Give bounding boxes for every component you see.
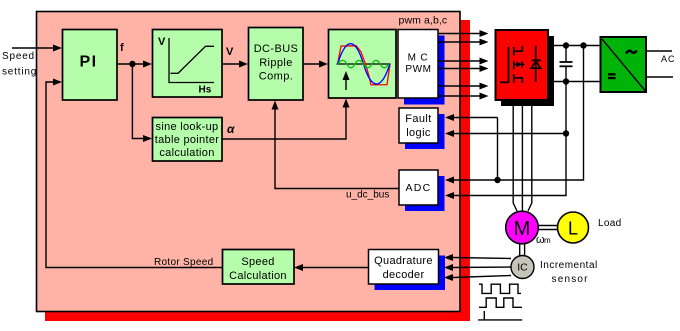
svg-text:table pointer: table pointer <box>155 134 219 146</box>
wire speed setting into PI <box>12 47 54 49</box>
wire ramp to DC-BUS block <box>222 63 240 65</box>
svg-text:V: V <box>226 46 234 58</box>
wire branch down to sine look-up <box>132 64 144 139</box>
pink control-board rectangle <box>37 12 461 312</box>
wire encoder index to quadrature decoder <box>444 274 511 281</box>
wire DC-BUS to sine block <box>303 63 320 65</box>
wire gate bus inside inverter <box>500 47 509 82</box>
block rectifier <box>601 37 647 92</box>
svg-text:sensor: sensor <box>552 274 589 285</box>
svg-text:u_dc_bus: u_dc_bus <box>346 190 389 201</box>
wires three phase lines to motor <box>513 104 517 211</box>
capacitor DC bus <box>565 46 567 62</box>
block Quadrature decoder <box>369 250 439 285</box>
wire ADC input 1 from DC+ <box>454 46 584 181</box>
wire pwm a top <box>438 30 489 37</box>
svg-text:m: m <box>544 236 551 245</box>
svg-text:α: α <box>227 122 235 136</box>
black shadow of inverter <box>501 36 554 106</box>
block PI <box>63 30 118 101</box>
svg-text:Fault: Fault <box>405 113 431 125</box>
svg-text:pwm a,b,c: pwm a,b,c <box>399 15 448 27</box>
wire pwm c bottom <box>438 93 489 100</box>
load L circle <box>558 212 589 243</box>
svg-text:L: L <box>568 219 578 239</box>
svg-text:Speed: Speed <box>241 256 274 268</box>
svg-text:AC: AC <box>661 54 676 64</box>
wire pwm c top <box>438 83 489 90</box>
block sine look-up table pointer calculation <box>153 118 223 162</box>
wire encoder phase B to quadrature decoder <box>444 264 511 271</box>
svg-text:PI: PI <box>79 54 97 71</box>
wire alpha to sine block <box>222 107 346 139</box>
shaft motor to load <box>538 225 558 227</box>
wire u_dc_bus to DC-BUS ripple comp <box>275 109 399 189</box>
svg-text:M C: M C <box>408 53 429 64</box>
red saturated sine <box>338 46 390 85</box>
svg-text:calculation: calculation <box>159 147 214 159</box>
pointer up-arrow inside sine block <box>345 78 347 90</box>
sensor IC circle <box>511 256 534 279</box>
node junction fault1/ADC1 <box>494 177 500 183</box>
blue sine <box>338 44 390 84</box>
svg-text:Rotor Speed: Rotor Speed <box>154 257 213 268</box>
wire quadrature decoder to speed calculation <box>303 267 368 269</box>
rectifier AC tilde symbol <box>626 51 637 54</box>
svg-text:Hs: Hs <box>199 85 212 96</box>
svg-text:Speed: Speed <box>2 51 35 62</box>
node PI output junction <box>129 61 135 67</box>
node junction on DC- sense <box>563 130 569 136</box>
sine midline <box>337 63 391 65</box>
rectifier DC equals symbol <box>608 73 616 79</box>
block MC PWM <box>398 30 438 99</box>
wire rotor speed feedback (left vertical + into PI) <box>46 82 222 268</box>
blue shadow of Quadrature decoder <box>375 256 446 291</box>
node DC+ cap junction <box>563 42 569 48</box>
svg-text:decoder: decoder <box>383 269 425 281</box>
block sine-wave generator <box>329 30 397 99</box>
svg-text:Calculation: Calculation <box>229 270 287 282</box>
wire pwm b top <box>438 58 489 65</box>
diode D1 (freewheeling diode symbol) <box>531 46 541 82</box>
transistor Q2 (bottom switch symbol) <box>514 74 523 83</box>
wire PI output to ramp block <box>117 63 144 65</box>
blue shadow of Fault logic <box>405 114 445 149</box>
svg-text:M: M <box>514 218 531 240</box>
svg-text:Incremental: Incremental <box>540 260 598 271</box>
blue shadow of MC PWM <box>404 36 445 105</box>
svg-text:DC-BUS: DC-BUS <box>254 43 299 55</box>
shaft motor to sensor <box>519 243 521 256</box>
index pulse <box>478 319 522 321</box>
svg-text:V: V <box>158 36 166 48</box>
quadrature signal A <box>479 284 521 293</box>
svg-text:Comp.: Comp. <box>259 71 293 83</box>
ramp graph axes <box>169 38 214 83</box>
svg-text:ADC: ADC <box>405 182 431 194</box>
node DC- cap junction <box>563 78 569 84</box>
svg-text:f: f <box>120 42 124 54</box>
wire DC+ rail <box>548 45 601 47</box>
wire fault input 1 <box>454 117 498 119</box>
block DC-BUS Ripple Comp <box>249 28 304 101</box>
wire fault input 2 from DC- sense <box>454 133 566 135</box>
block acceleration ramp <box>153 30 223 98</box>
green third harmonic <box>338 60 389 67</box>
red backdrop rectangle <box>45 20 470 321</box>
transistor Q3 (middle symbol with arrow) <box>514 60 525 69</box>
ramp curve <box>170 46 214 73</box>
wires AC side <box>645 50 672 52</box>
block Speed Calculation <box>223 250 295 285</box>
wire encoder phase A to quadrature decoder <box>444 254 511 261</box>
svg-text:Quadrature: Quadrature <box>374 255 433 267</box>
quadrature signal B <box>479 298 522 307</box>
svg-text:logic: logic <box>406 127 431 139</box>
svg-text:Load: Load <box>598 218 621 229</box>
wire ADC input 2 from DC- <box>454 82 566 196</box>
node DC+ ADC junction <box>580 42 586 48</box>
svg-text:PWM: PWM <box>405 64 431 75</box>
motor M circle <box>506 211 539 244</box>
block ADC <box>399 170 438 205</box>
block Fault logic <box>399 108 438 143</box>
svg-text:IC: IC <box>517 262 528 274</box>
blue shadow of ADC <box>405 176 445 211</box>
svg-text:setting: setting <box>2 67 37 78</box>
svg-text:Ripple: Ripple <box>259 57 293 69</box>
svg-text:sine look-up: sine look-up <box>156 121 219 133</box>
wire pwm a bottom <box>438 39 489 46</box>
rectifier diagonal divider <box>602 39 645 91</box>
wire DC- rail <box>548 81 601 83</box>
wire fault1 vertical down to ADC line <box>497 118 499 181</box>
wire pwm b bottom <box>438 65 489 72</box>
block inverter power stage <box>496 30 549 100</box>
transistor Q1 (top switch symbol) <box>514 46 523 56</box>
